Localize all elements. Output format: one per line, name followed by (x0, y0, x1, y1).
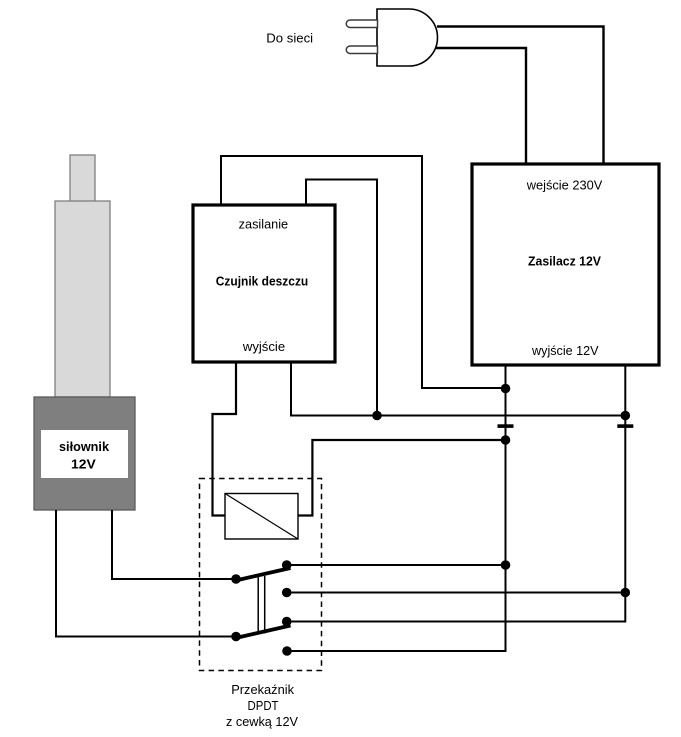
relay pole contact 1 (231, 574, 241, 584)
crossover tick on rail A (498, 424, 514, 428)
junction node rail A / throw 1 (501, 560, 511, 570)
svg-text:wejście 230V: wejście 230V (526, 178, 603, 193)
rain sensor box Czujnik deszczu (193, 205, 335, 362)
relay coil K1 (225, 494, 298, 540)
wire sensor pin2 to node at 377,415 (306, 180, 377, 416)
mains plug P1 (346, 9, 437, 66)
wire sensor output right to rail B node (291, 362, 625, 416)
relay armature 1 (234, 568, 291, 581)
wire rail A to relay coil right (298, 440, 506, 516)
wire plug top to zasilacz input right (437, 27, 604, 165)
svg-text:Przekaźnik: Przekaźnik (231, 682, 294, 697)
junction node at 377,415 (372, 411, 382, 421)
relay mechanical link (258, 576, 265, 634)
wire actuator left terminal to relay pole 2 (56, 510, 236, 637)
relay throw contact 3 (282, 617, 292, 627)
wire rail A from zasilacz output left (287, 365, 506, 651)
wire rail B from zasilacz output right (287, 365, 626, 622)
junction node rail B / throw 2 (621, 588, 631, 598)
actuator shaft (55, 201, 110, 397)
label Przekaźnik DPDT z cewką 12V (226, 682, 298, 729)
svg-text:wyjście 12V: wyjście 12V (531, 343, 599, 358)
svg-text:Do sieci: Do sieci (266, 30, 313, 45)
actuator body (34, 397, 135, 510)
wire sensor zasilanie to 12V rail A (221, 156, 506, 388)
relay throw contact 4 (282, 646, 292, 656)
wire plug bottom to zasilacz input left (436, 48, 526, 164)
relay throw contact 2 (282, 588, 292, 598)
wire sensor output left to relay coil left (213, 362, 237, 516)
actuator label plate siłownik 12V (41, 430, 128, 478)
svg-text:zasilanie: zasilanie (239, 217, 289, 232)
svg-text:z cewką 12V: z cewką 12V (226, 714, 298, 729)
svg-text:12V: 12V (71, 457, 96, 471)
relay throw contact 1 (282, 560, 292, 570)
actuator top stub (70, 155, 95, 202)
svg-text:siłownik: siłownik (59, 440, 109, 454)
svg-text:Czujnik deszczu: Czujnik deszczu (216, 275, 309, 289)
wire actuator right terminal to relay pole 1 (112, 510, 236, 579)
svg-text:DPDT: DPDT (248, 698, 279, 713)
wire relay throw 2 to rail B (287, 592, 626, 594)
junction node rail A / zasilanie feed (501, 384, 511, 394)
crossover tick on rail B (617, 424, 633, 428)
relay dashed enclosure (200, 479, 322, 671)
relay armature 2 (234, 626, 291, 639)
svg-text:wyjście: wyjście (242, 339, 285, 354)
junction node rail B / sensor output (621, 411, 631, 421)
power supply box Zasilacz 12V (472, 164, 659, 365)
svg-text:Zasilacz 12V: Zasilacz 12V (528, 255, 602, 269)
wire relay throw 1 to rail A (287, 564, 506, 566)
relay pole contact 2 (231, 632, 241, 642)
junction node rail A / coil feed (501, 435, 511, 445)
